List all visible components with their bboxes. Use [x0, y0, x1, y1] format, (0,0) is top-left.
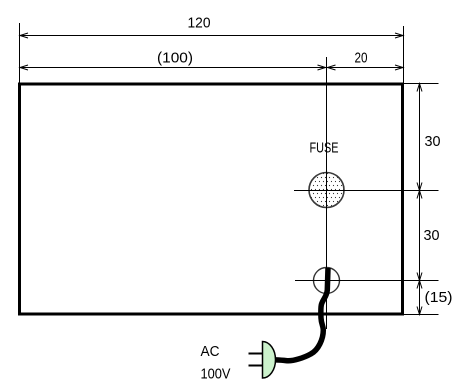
svg-text:120: 120 — [188, 15, 211, 32]
svg-text:AC: AC — [201, 343, 220, 360]
svg-text:(100): (100) — [157, 50, 193, 67]
svg-text:(15): (15) — [425, 289, 453, 306]
svg-text:FUSE: FUSE — [310, 140, 339, 157]
svg-text:100V: 100V — [201, 366, 231, 383]
svg-text:30: 30 — [425, 133, 441, 150]
svg-text:20: 20 — [355, 50, 368, 67]
svg-text:30: 30 — [424, 227, 440, 244]
